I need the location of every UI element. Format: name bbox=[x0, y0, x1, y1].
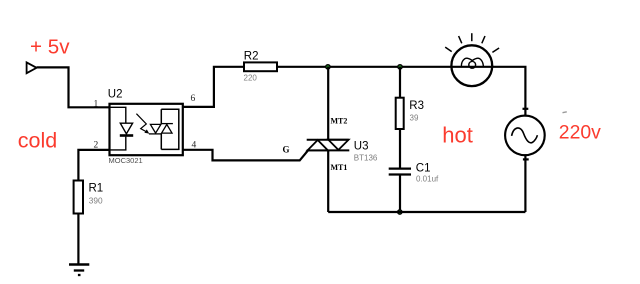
svg-text:U3: U3 bbox=[354, 141, 369, 153]
svg-text:220: 220 bbox=[244, 74, 258, 83]
wire port to U2 pin 1 bbox=[37, 67, 110, 107]
resistor R1 bbox=[74, 181, 83, 214]
op-amp U2 optocoupler MOC3021 box bbox=[110, 104, 183, 155]
wire R3 to C1 bbox=[399, 129, 401, 168]
junction dot top rail at R3 bbox=[398, 65, 402, 69]
svg-text:R3: R3 bbox=[409, 100, 424, 112]
ground bbox=[69, 265, 89, 276]
svg-text:R1: R1 bbox=[89, 183, 104, 195]
svg-text:cold: cold bbox=[18, 129, 57, 153]
AC source V1 circle bbox=[505, 116, 545, 156]
U2 internal phototriac bottom bar bbox=[149, 133, 161, 135]
wire top rail R2 to AC source corner bbox=[277, 67, 525, 117]
wire MT2 vertical bbox=[327, 67, 329, 140]
svg-text:+ 5v: + 5v bbox=[30, 36, 70, 59]
U2 internal LED cathode bar bbox=[120, 134, 133, 137]
svg-text:MOC3021: MOC3021 bbox=[109, 156, 143, 165]
triac U3 bottom bar bbox=[307, 149, 350, 151]
svg-text:39: 39 bbox=[410, 114, 419, 123]
svg-text:390: 390 bbox=[89, 195, 103, 205]
port +5V input triangle bbox=[27, 62, 37, 73]
wire AC source bottom vertical bbox=[524, 154, 526, 212]
svg-text:MT2: MT2 bbox=[331, 117, 348, 126]
svg-text:220v: 220v bbox=[559, 121, 601, 143]
svg-text:BT136: BT136 bbox=[354, 153, 378, 162]
U2 internal phototriac right triangle bbox=[162, 124, 172, 133]
svg-text:6: 6 bbox=[191, 94, 196, 104]
wire U2 pin 6 up to top rail bbox=[183, 67, 244, 107]
wire R3 top bbox=[399, 67, 401, 98]
U2 internal phototriac left triangle bbox=[150, 124, 161, 133]
triac U3 right triangle bbox=[328, 140, 348, 150]
wire U2 pin 4 to triac gate bbox=[183, 150, 308, 161]
wire MT1 vertical bbox=[327, 150, 329, 212]
lamp rays bbox=[445, 33, 499, 52]
svg-text:hot: hot bbox=[442, 123, 473, 148]
svg-text:R2: R2 bbox=[244, 50, 259, 62]
lamp DS1 circle bbox=[451, 45, 492, 86]
junction dot top rail at MT2 bbox=[326, 65, 330, 69]
svg-text:MT1: MT1 bbox=[331, 163, 348, 172]
svg-text:G: G bbox=[283, 145, 290, 155]
stray gray mark bbox=[563, 111, 567, 114]
U2 internal LED triangle bbox=[120, 123, 132, 134]
wire bottom rail bbox=[328, 211, 525, 213]
svg-text:1: 1 bbox=[94, 100, 99, 110]
wire C1 to bottom rail bbox=[399, 176, 401, 213]
triac U3 top bar bbox=[307, 139, 349, 141]
U2 internal light arrow bbox=[136, 114, 146, 132]
U2 internal LED anode lead bbox=[110, 107, 126, 123]
resistor R3 bbox=[396, 98, 404, 129]
wire U2 pin 2 to R1 bbox=[78, 150, 110, 181]
svg-text:C1: C1 bbox=[416, 162, 431, 174]
triac U3 left triangle bbox=[308, 140, 328, 150]
svg-text:U2: U2 bbox=[108, 89, 123, 101]
capacitor C1 top plate bbox=[389, 168, 411, 170]
U2 internal LED cathode lead to pin 2 bbox=[110, 137, 126, 150]
U2 internal phototriac top bar bbox=[161, 123, 173, 125]
resistor R2 bbox=[244, 62, 277, 71]
U2 internal phototriac frame bbox=[161, 109, 179, 149]
capacitor C1 bottom plate bbox=[389, 173, 411, 175]
AC source sine wave bbox=[512, 128, 538, 143]
wire R1 to ground bbox=[77, 214, 79, 264]
lamp filament bbox=[461, 58, 483, 68]
AC source bottom pin tick bbox=[523, 158, 529, 160]
AC source top pin tick bbox=[523, 108, 529, 110]
junction dot bottom rail at C1 bbox=[398, 210, 402, 214]
svg-text:0.01uf: 0.01uf bbox=[416, 175, 439, 184]
